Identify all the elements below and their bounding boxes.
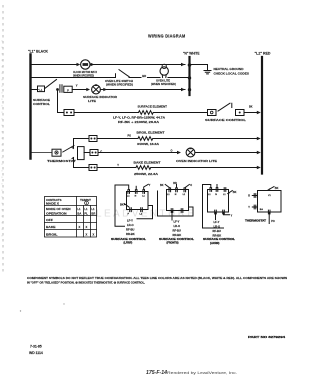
svg-text:RF-BU: RF-BU [213,229,221,233]
svg-text:175-F-14: 175-F-14 [146,370,167,376]
connector plug [60,85,62,92]
svg-text:(WHEN SPECIFIED): (WHEN SPECIFIED) [151,82,176,86]
svg-text:RR-BK: RR-BK [126,232,135,236]
svg-text:P: P [67,88,69,92]
svg-text:(WHEN SPECIFIED): (WHEN SPECIFIED) [106,83,133,87]
wire list box 3 [213,220,222,238]
wire C branch [84,152,90,154]
L1 bus [29,55,31,159]
wire arrow [177,151,181,154]
thermostat symbol in table [85,201,89,205]
wire list box 2 [173,219,182,237]
svg-text:CONTACTS: CONTACTS [46,198,62,202]
svg-text:BR: BR [142,74,146,78]
svg-text:(LR/RR): (LR/RR) [210,242,219,245]
svg-text:3400W, 16.6A: 3400W, 16.6A [137,143,159,146]
thermostat bellows [78,147,85,160]
svg-text:BROIL: BROIL [46,232,58,236]
label surface indicator lite [83,95,118,103]
wire motor to N [90,64,185,66]
node junction [188,63,192,67]
svg-text:LF-Y: LF-Y [214,220,220,224]
wire arrow [91,63,95,66]
resistor broil element [138,137,153,141]
svg-text:X: X [93,232,95,236]
wire [97,167,136,169]
wire rung3 [31,89,38,91]
node junction [188,76,191,79]
svg-text:X: X [79,225,81,229]
terminal bake [89,165,97,171]
wire arrow [257,151,261,154]
label neutral ground [214,67,250,76]
svg-text:LF-Y, LF-O, RF-BR+1250W, 44.7A: LF-Y, LF-O, RF-BR+1250W, 44.7A [113,117,165,120]
date code [29,345,43,356]
svg-text:BK: BK [233,191,237,194]
wire thermostat rung [31,152,52,154]
labels surface control box 1 [120,184,151,216]
svg-text:BAKE: BAKE [46,225,56,229]
terminal BK [64,110,74,116]
wire [100,89,185,91]
svg-text:BA: BA [260,208,264,211]
svg-text:SURFACE CONTROL: SURFACE CONTROL [205,118,246,122]
label oven lite switch [105,79,133,87]
label clock motor [73,70,98,78]
svg-text:OFF: OFF [46,218,53,222]
terminal surface control out [236,110,245,116]
svg-text:MODE OF OVEN: MODE OF OVEN [46,207,71,211]
wire [74,112,139,114]
svg-text:O: O [190,184,192,187]
svg-text:SURFACE CONTROL: SURFACE CONTROL [111,237,146,241]
wire [153,112,207,114]
wire [195,152,258,154]
svg-text:PART NO 3279294: PART NO 3279294 [248,335,286,339]
wire rung2 L1 to switch [31,74,116,78]
wire arrow [77,63,81,66]
svg-text:SURFACE CONTROL: SURFACE CONTROL [203,237,235,241]
svg-text:RF-BU: RF-BU [173,228,181,232]
clock motor B1 [81,60,90,69]
N bus [188,57,190,95]
terminal broil [89,136,97,142]
terminal thermostat [52,149,61,156]
wire arrow [257,137,261,140]
wire [148,77,161,79]
wire arrow [181,63,185,66]
perforation edge [2,5,4,272]
label oven lite [151,78,176,86]
oven lite lamp [160,64,168,77]
svg-text:LR-O: LR-O [174,224,181,228]
label surface control 2 [159,237,194,245]
svg-text:R: R [248,195,250,198]
terminal surface control in [208,110,217,116]
svg-text:BA: BA [77,212,81,216]
svg-text:BK: BK [120,204,124,207]
terminal P [64,86,72,92]
svg-text:Y: Y [76,84,78,88]
svg-text:THERMOSTAT: THERMOSTAT [245,219,266,223]
wire arrow [103,88,107,91]
label surface control 3 [203,237,235,245]
label surface control 1 [111,237,146,245]
svg-text:PO: PO [271,220,275,223]
svg-text:BK: BK [160,184,164,187]
ground neutral [190,65,211,74]
L2 bus [261,57,263,174]
terminal L1 surface control [38,86,45,92]
wire [97,138,138,140]
table text [46,198,95,236]
svg-text:PL: PL [84,212,88,216]
svg-text:LR-O: LR-O [214,225,221,229]
contacts table [45,197,97,238]
svg-text:LR-O: LR-O [127,223,134,227]
svg-text:LF-Y: LF-Y [127,219,133,223]
label surface element values [113,117,165,124]
wire [244,112,258,114]
wire [72,89,87,91]
switch S2 surface control [45,80,57,89]
svg-text:X: X [86,225,88,229]
svg-text:BK: BK [275,187,279,190]
svg-text:LITE: LITE [88,99,96,103]
svg-text:MADE X: MADE X [46,202,59,206]
svg-text:"L1" BLACK: "L1" BLACK [28,50,48,54]
surface control box 1 [115,184,153,226]
resistor bake element [136,166,151,170]
svg-text:CHECK LOCAL CODES: CHECK LOCAL CODES [214,72,250,76]
svg-text:7-31-85: 7-31-85 [30,345,42,349]
surface indicator lite lamp [92,84,101,94]
svg-text:L1: L1 [91,207,95,211]
svg-text:NEUTRAL GROUND: NEUTRAL GROUND [214,67,244,71]
credit line [146,370,237,376]
wire [151,167,258,169]
label surface control [33,98,50,106]
svg-text:O: O [171,150,173,153]
svg-text:WD 1114: WD 1114 [29,351,43,355]
switch S1 oven lite [119,70,129,77]
svg-text:IN "OFF" OR "RELAXED" POSITION: IN "OFF" OR "RELAXED" POSITION. ① INDICA… [27,282,145,285]
wire arrow [257,166,261,169]
oven indicator lite lamp [186,148,195,157]
node junction [56,88,59,91]
node junction [188,88,191,91]
wire [153,138,258,140]
svg-text:RF-BU: RF-BU [126,228,134,232]
wire [168,77,189,79]
surface control box 3 [203,185,233,229]
svg-text:COMPONENT SYMBOLS DO NOT REFLE: COMPONENT SYMBOLS DO NOT REFLECT TRUE CO… [27,277,287,280]
wire bake branch [74,167,90,169]
wire arrow [86,88,90,91]
switch thermostat blade [63,146,74,153]
svg-text:LF-Y: LF-Y [174,219,180,223]
svg-text:(LF/RF): (LF/RF) [124,242,133,245]
svg-text:THERMOSTAT: THERMOSTAT [47,159,76,163]
svg-text:SURFACE ELEMENT: SURFACE ELEMENT [138,105,168,109]
surface control box 2 [158,184,194,220]
thermostat contact bar [72,139,74,168]
svg-text:2500W, 22.3A: 2500W, 22.3A [134,173,158,176]
wire arrow [257,111,261,114]
svg-text:BROIL ELEMENT: BROIL ELEMENT [137,131,165,135]
svg-text:L1: L1 [77,207,81,211]
labels surface control box 3 [208,191,237,218]
thermostat detail box [252,187,281,224]
wire broil branch [74,138,90,140]
svg-text:BK: BK [249,105,253,108]
svg-text:OVEN INDICATOR LITE: OVEN INDICATOR LITE [176,159,217,163]
wire drop to surface element [58,90,65,113]
svg-text:"N" WHITE: "N" WHITE [183,52,200,56]
svg-text:Rendered by LeadVenture, Inc.: Rendered by LeadVenture, Inc. [167,371,237,375]
svg-text:OPERATION: OPERATION [46,212,67,216]
svg-text:"L2" RED: "L2" RED [255,52,271,56]
svg-text:RF-BK + 2100W, 26.6A: RF-BK + 2100W, 26.6A [118,121,159,124]
labels surface control box 2 [160,182,192,196]
wire rung1 L1 to motor [31,64,77,66]
svg-text:L1: L1 [84,207,88,211]
resistor surface element [139,111,154,115]
wire [98,152,178,154]
svg-text:X: X [86,232,88,236]
terminal C [90,150,98,156]
svg-text:SURFACE CONTROL: SURFACE CONTROL [159,237,194,241]
wire list box 1 [126,219,135,237]
svg-text:BAKE ELEMENT: BAKE ELEMENT [134,160,161,164]
svg-text:PO: PO [128,134,132,137]
switch S3 surface control [218,103,232,111]
svg-text:CONTROL: CONTROL [33,102,50,106]
svg-text:BR: BR [173,182,177,185]
wire arrow [181,88,185,91]
svg-text:(FRONTS): (FRONTS) [167,242,179,245]
svg-text:WIRING DIAGRAM: WIRING DIAGRAM [148,34,186,39]
svg-text:BR: BR [91,212,95,216]
wire [129,77,141,79]
labels thermostat detail [248,187,278,223]
